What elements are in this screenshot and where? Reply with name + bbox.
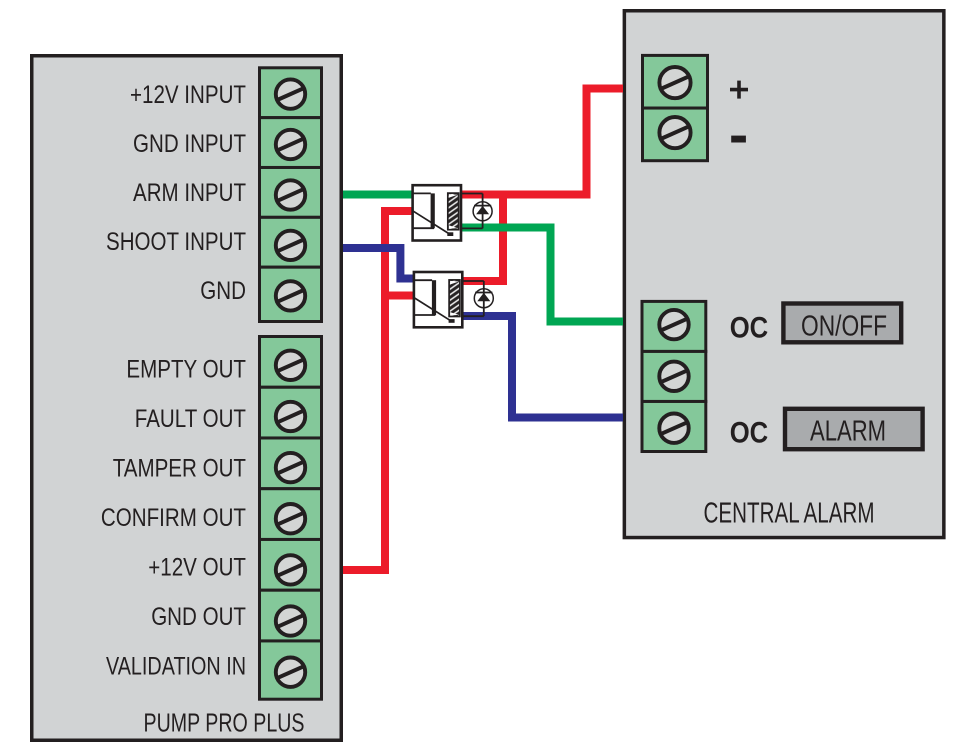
svg-text:GND OUT: GND OUT [151, 603, 246, 631]
svg-text:GND INPUT: GND INPUT [133, 130, 246, 158]
svg-text:ALARM: ALARM [810, 416, 886, 448]
svg-text:EMPTY OUT: EMPTY OUT [126, 356, 246, 384]
svg-text:CENTRAL ALARM: CENTRAL ALARM [704, 498, 875, 530]
svg-text:ARM INPUT: ARM INPUT [133, 179, 246, 207]
svg-text:OC: OC [730, 312, 769, 345]
svg-text:VALIDATION IN: VALIDATION IN [106, 653, 246, 681]
svg-text:OC: OC [730, 417, 769, 450]
svg-text:GND: GND [200, 277, 246, 305]
svg-text:PUMP PRO PLUS: PUMP PRO PLUS [144, 707, 305, 737]
svg-text:TAMPER OUT: TAMPER OUT [113, 455, 246, 483]
svg-text:FAULT OUT: FAULT OUT [135, 405, 246, 433]
svg-text:SHOOT INPUT: SHOOT INPUT [106, 228, 246, 256]
svg-text:+12V OUT: +12V OUT [148, 554, 246, 582]
svg-text:ON/OFF: ON/OFF [801, 311, 887, 343]
svg-text:CONFIRM OUT: CONFIRM OUT [101, 504, 246, 532]
svg-text:+12V INPUT: +12V INPUT [130, 81, 246, 109]
